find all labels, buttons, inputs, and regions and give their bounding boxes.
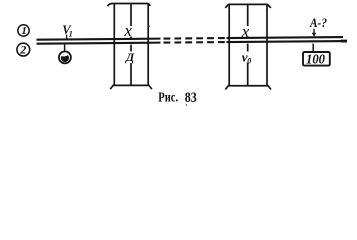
svg-text:Рис.: Рис. (158, 91, 178, 106)
svg-text:1: 1 (21, 25, 27, 37)
svg-text:100: 100 (306, 52, 325, 67)
svg-text:x: x (123, 21, 132, 40)
svg-text:Д: Д (125, 50, 135, 64)
svg-text:83: 83 (185, 90, 197, 106)
svg-text:2: 2 (19, 43, 26, 57)
svg-text:A-?: A-? (309, 15, 327, 30)
svg-text:x: x (241, 22, 250, 41)
svg-text:0: 0 (247, 57, 251, 66)
svg-text:1: 1 (69, 29, 73, 38)
